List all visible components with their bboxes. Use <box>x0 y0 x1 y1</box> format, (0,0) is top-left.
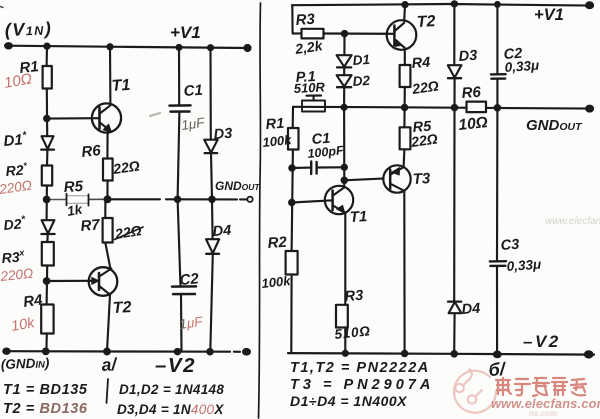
capacitor C2 <box>178 199 181 286</box>
svg-text:1μF: 1μF <box>180 115 206 133</box>
svg-text:D1÷D4 = 1N400X: D1÷D4 = 1N400X <box>290 393 408 409</box>
svg-text:GNDOUT: GNDOUT <box>526 117 583 134</box>
svg-text:510R: 510R <box>293 79 325 96</box>
svg-text:10Ω: 10Ω <box>458 114 489 134</box>
node dot top rail right end <box>586 2 593 8</box>
svg-text:100k: 100k <box>262 132 293 150</box>
wire T2 emitter to bottom rail <box>107 295 110 352</box>
resistor R5 (right, 22Ω) <box>403 108 405 128</box>
wire R4 to rail <box>404 87 406 107</box>
svg-text:D2*: D2* <box>3 214 27 233</box>
resistor R2 <box>42 166 52 186</box>
svg-text:D1: D1 <box>352 52 370 68</box>
capacitor C1 <box>178 47 180 105</box>
svg-text:T2: T2 <box>112 299 132 317</box>
node dot top rail right end <box>245 45 251 51</box>
svg-text:D4: D4 <box>212 223 232 240</box>
wire T1 base (right) <box>292 200 333 202</box>
node dot bottom rail right end <box>585 351 593 357</box>
wire T2 collector up <box>403 5 406 21</box>
node dot R5 left <box>44 197 50 203</box>
svg-text:R3: R3 <box>344 288 364 305</box>
wire T2 base <box>47 280 92 282</box>
svg-text:1k: 1k <box>66 201 85 219</box>
wire R1 down left vertical <box>292 150 293 252</box>
resistor R4 <box>41 305 53 334</box>
wire GND rail circuit b <box>293 107 592 109</box>
capacitor C1 (right, 100pF) <box>292 167 311 170</box>
resistor R3 (2,2k) <box>302 29 324 39</box>
diode D1 <box>42 136 54 149</box>
svg-text:R3x: R3x <box>1 247 26 266</box>
svg-text:D3,D4 = 1N400X: D3,D4 = 1N400X <box>117 402 224 417</box>
transistor T2 (right) <box>387 20 417 50</box>
node dot D1 chain top <box>342 31 347 36</box>
resistor R3 bottom (510Ω) <box>336 305 348 328</box>
svg-text:www.elecfans.com: www.elecfans.com <box>545 216 600 227</box>
resistor R2 (right, 100k) <box>286 251 298 275</box>
svg-text:C3: C3 <box>500 237 520 254</box>
svg-text:R1: R1 <box>265 116 285 133</box>
node dot T1 collector <box>107 44 112 49</box>
svg-text:T1,T2 = PN2222A: T1,T2 = PN2222A <box>290 360 430 376</box>
wire R3 to R4 <box>46 266 49 305</box>
svg-text:–V2: –V2 <box>523 332 561 351</box>
svg-text:R6: R6 <box>461 84 482 102</box>
svg-text:0,33μ: 0,33μ <box>506 257 541 274</box>
svg-text:T1: T1 <box>111 77 131 95</box>
pencil smudge near T1 <box>150 113 160 116</box>
svg-text:GNDOUT: GNDOUT <box>215 179 260 193</box>
svg-text:T1: T1 <box>349 208 367 226</box>
transistor T1 (right) <box>325 186 353 214</box>
svg-text:C1: C1 <box>183 82 203 100</box>
svg-text:D3: D3 <box>458 48 478 65</box>
separator bar <box>107 379 109 403</box>
svg-text:R2: R2 <box>267 234 288 252</box>
svg-text:T3: T3 <box>412 170 431 188</box>
svg-text:T2: T2 <box>416 13 436 31</box>
svg-text:T1 = BD135: T1 = BD135 <box>3 382 88 398</box>
wire T1 collector up <box>109 47 112 104</box>
svg-text:100k: 100k <box>261 273 292 291</box>
resistor R7 <box>104 199 106 218</box>
wire D1 to R2 <box>46 150 49 166</box>
wire T1 base <box>47 117 100 120</box>
svg-text:22Ω: 22Ω <box>409 130 439 150</box>
node dot top-left <box>5 43 12 48</box>
svg-text:R7: R7 <box>80 216 101 235</box>
wire R1 to D1 <box>46 89 49 137</box>
svg-text:D1,D2 = 1N4148: D1,D2 = 1N4148 <box>119 382 224 397</box>
wire T3 base <box>344 179 383 181</box>
wire T1 collector to node <box>343 180 345 187</box>
svg-text:10Ω: 10Ω <box>3 70 34 92</box>
svg-text:+V1: +V1 <box>534 6 564 24</box>
wire R3 to bottom rail <box>344 328 346 354</box>
transistor T3 <box>383 165 410 192</box>
wire R4 to bottom rail <box>45 334 48 352</box>
svg-text:R5: R5 <box>63 178 84 196</box>
diode D1 (right) <box>343 34 345 55</box>
wire R6 to node <box>106 181 108 200</box>
wire D2 to rail <box>343 87 345 107</box>
svg-text:R4: R4 <box>22 291 44 311</box>
wire T1 emitter down <box>344 213 346 305</box>
svg-text:220Ω: 220Ω <box>0 266 34 284</box>
svg-text:R4: R4 <box>411 55 431 72</box>
node dot T2 base <box>44 278 50 284</box>
resistor R1 (right, 100k) <box>288 128 299 150</box>
svg-text:a/: a/ <box>101 354 119 375</box>
wire T2 emitter to R4 <box>404 49 406 66</box>
svg-text:R2*: R2* <box>5 161 28 179</box>
svg-text:10k: 10k <box>10 315 37 335</box>
transistor T2 <box>89 267 118 296</box>
svg-text:100pF: 100pF <box>307 143 345 161</box>
node dot R1 top <box>44 44 49 49</box>
wire GND out rail circuit a <box>108 198 248 200</box>
wire rail corner down to R3 <box>292 5 301 33</box>
wire R7 to T2 collector <box>105 243 110 269</box>
node dot C1 top <box>177 45 182 50</box>
svg-text:D2: D2 <box>352 73 371 89</box>
svg-text:0,33μ: 0,33μ <box>504 58 539 75</box>
svg-text:2,2k: 2,2k <box>293 37 324 57</box>
node dot D3 top <box>208 45 213 50</box>
capacitor C2 (right, 0,33μ) <box>496 4 498 74</box>
svg-text:R6: R6 <box>81 142 103 161</box>
svg-text:C2: C2 <box>179 270 200 289</box>
wire top rail circuit a <box>8 46 248 48</box>
svg-text:T3 = PN2907A: T3 = PN2907A <box>290 377 434 393</box>
wire D2 to R3 <box>46 234 49 242</box>
watermark logo circle <box>454 370 496 413</box>
node GND out terminal circle <box>247 197 252 202</box>
wire bottom rail circuit a (GND IN / -V2) <box>6 350 240 353</box>
wire T3 bottom down <box>403 191 405 353</box>
diode D2 <box>42 220 55 233</box>
svg-text:+V1: +V1 <box>170 23 201 42</box>
transistor T1 <box>92 103 121 132</box>
svg-text:D3: D3 <box>213 126 233 143</box>
paper corner tick <box>0 7 3 8</box>
diode D4 (right) <box>453 108 455 302</box>
wire bottom rail circuit b <box>288 353 594 355</box>
wire R2 to node <box>46 186 48 221</box>
diode D3 (right) <box>453 4 455 65</box>
diode D4 <box>211 199 214 239</box>
resistor R4 (right, 22Ω) <box>400 65 411 87</box>
resistor R5 (faint, on horizontal wire) <box>47 199 67 201</box>
wire R3 to T2 base <box>324 32 395 34</box>
svg-text:(V1N): (V1N) <box>4 18 52 40</box>
resistor R3 <box>42 242 54 266</box>
diode D3 <box>209 48 211 140</box>
wire T3 top to R5 <box>403 149 406 167</box>
divider line between circuits <box>259 3 261 418</box>
svg-text:510Ω: 510Ω <box>334 323 372 342</box>
svg-text:22Ω: 22Ω <box>410 77 440 97</box>
resistor R6 (right, 10Ω) <box>467 102 487 113</box>
svg-text:(GNDIN): (GNDIN) <box>1 355 50 372</box>
svg-text:ns.com: ns.com <box>529 409 557 418</box>
resistor R1 <box>43 66 52 89</box>
node dot GND rail right end <box>586 106 593 112</box>
svg-text:R3: R3 <box>295 11 316 29</box>
wire rail corner down to R1 <box>292 107 294 128</box>
wire R2 to bottom rail <box>290 275 292 354</box>
wire top rail circuit b <box>292 4 592 6</box>
resistor R6 <box>103 159 113 181</box>
diode D2 (right) <box>343 68 345 75</box>
svg-text:D1*: D1* <box>3 130 29 150</box>
capacitor C3 (0,33μ) <box>496 108 499 261</box>
wire D2 chain lower segment <box>343 107 345 180</box>
svg-text:–V2: –V2 <box>155 354 196 377</box>
watermark chinese characters <box>496 378 586 396</box>
svg-text:T2 = BD136: T2 = BD136 <box>3 401 88 417</box>
svg-text:1μF: 1μF <box>178 314 204 332</box>
svg-text:220Ω: 220Ω <box>0 178 33 198</box>
wire left vertical upper <box>46 46 49 66</box>
wire T1 emitter to R6 <box>106 132 108 158</box>
svg-text:22Ω: 22Ω <box>111 157 141 177</box>
svg-text:D4: D4 <box>461 301 481 318</box>
